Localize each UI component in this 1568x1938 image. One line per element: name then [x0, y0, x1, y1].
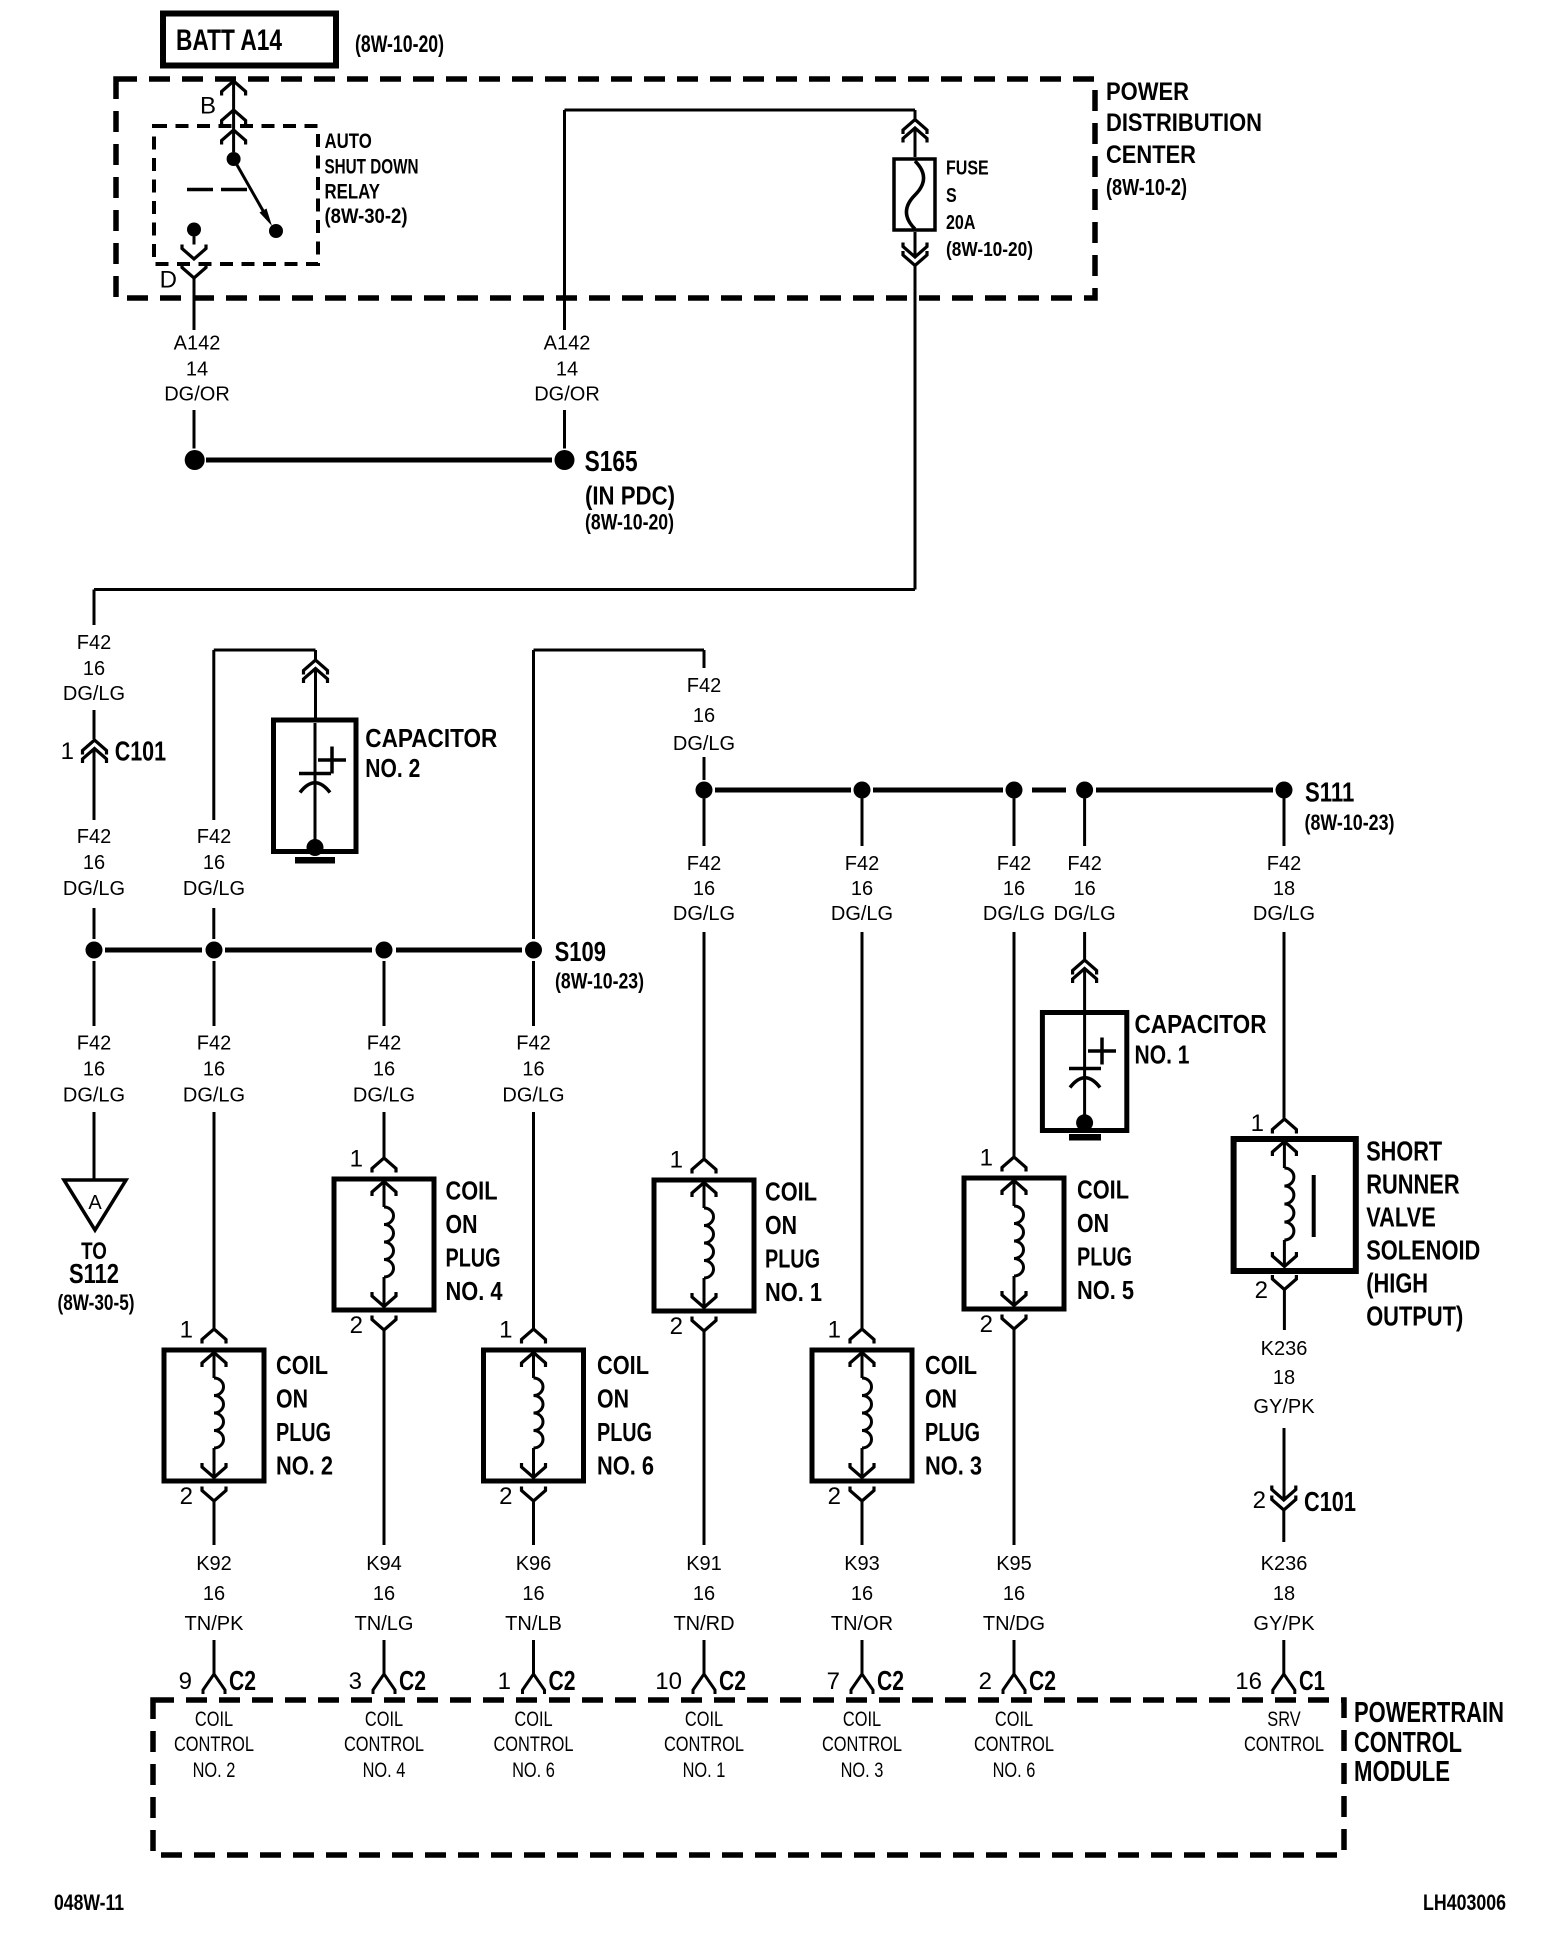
wire to SRV solenoid — [1283, 799, 1286, 1120]
svg-text:C2: C2 — [229, 1665, 256, 1696]
svg-text:16: 16 — [693, 1583, 715, 1605]
label K94 16 TN/LG — [355, 1553, 414, 1635]
svg-text:1: 1 — [61, 738, 74, 765]
wire to coil no 5 — [1013, 799, 1016, 1158]
wire col3 top feed — [383, 942, 386, 950]
svg-text:COIL: COIL — [514, 1708, 552, 1731]
label K92 16 TN/PK — [185, 1553, 245, 1635]
coil on plug no 6 — [484, 1350, 584, 1481]
label COIL CONTROL NO. 6 in PCM — [493, 1708, 573, 1782]
coil on plug no 1 pin 2 — [670, 1313, 716, 1340]
svg-text:1: 1 — [980, 1145, 993, 1172]
svg-text:RELAY: RELAY — [325, 181, 380, 204]
svg-text:K91: K91 — [686, 1553, 722, 1575]
coil on plug no 6 pin 1 — [499, 1317, 545, 1344]
svg-text:F42: F42 — [197, 1033, 231, 1055]
svg-text:DG/LG: DG/LG — [673, 733, 735, 755]
ground bar capacitor no 2 — [295, 857, 335, 864]
svg-text:DG/LG: DG/LG — [353, 1085, 415, 1107]
svg-text:C101: C101 — [1304, 1486, 1356, 1517]
svg-text:(8W-10-23): (8W-10-23) — [555, 969, 644, 994]
svg-text:S109: S109 — [555, 936, 606, 967]
svg-text:POWERTRAIN: POWERTRAIN — [1354, 1697, 1504, 1729]
svg-text:2: 2 — [828, 1483, 841, 1510]
svg-text:B: B — [200, 93, 216, 120]
PCM pin 1 C2 — [498, 1665, 576, 1696]
svg-text:1: 1 — [180, 1317, 193, 1344]
coil on plug no 6 pin 2 — [499, 1483, 545, 1510]
svg-text:CAPACITOR: CAPACITOR — [1135, 1009, 1267, 1039]
svg-text:C2: C2 — [877, 1665, 904, 1696]
label F42 16 DG/LG S111 feed — [673, 675, 735, 755]
svg-text:16: 16 — [522, 1583, 544, 1605]
SRV solenoid pin 1 — [1251, 1110, 1297, 1137]
svg-text:DG/LG: DG/LG — [63, 683, 125, 705]
relay switch common node — [227, 152, 241, 166]
label COIL ON PLUG NO. 6 — [597, 1350, 654, 1481]
svg-text:SRV: SRV — [1267, 1708, 1300, 1731]
fuse output chevrons — [903, 243, 927, 266]
wire S109 bus — [105, 948, 522, 953]
wire coil3 to PCM — [861, 1501, 864, 1674]
svg-text:NO. 4: NO. 4 — [363, 1759, 406, 1782]
label SRV CONTROL in PCM — [1244, 1708, 1324, 1756]
label A142 14 DG/OR left — [164, 333, 230, 406]
svg-text:16: 16 — [1003, 878, 1025, 900]
wire capacitor2 branch — [214, 650, 316, 939]
svg-text:NO. 2: NO. 2 — [365, 753, 420, 783]
svg-text:2: 2 — [180, 1483, 193, 1510]
svg-text:2: 2 — [1253, 1487, 1266, 1514]
label F42 16 DG/LG coil1 — [673, 853, 735, 925]
svg-text:NO. 2: NO. 2 — [276, 1451, 333, 1481]
label K93 16 TN/OR — [831, 1553, 893, 1635]
wire S111 feed — [703, 650, 706, 780]
label COIL CONTROL NO. 6 in PCM — [974, 1708, 1054, 1782]
wire C101 to PCM — [1282, 1510, 1285, 1674]
svg-text:PLUG: PLUG — [925, 1417, 980, 1447]
svg-text:TN/LB: TN/LB — [505, 1613, 562, 1635]
svg-text:(8W-10-20): (8W-10-20) — [355, 31, 444, 58]
wire to coil no 4 — [383, 961, 386, 1158]
svg-text:K96: K96 — [516, 1553, 552, 1575]
svg-text:TN/PK: TN/PK — [185, 1613, 245, 1635]
svg-text:COIL: COIL — [446, 1176, 498, 1206]
label F42 16 DG/LG coil4 — [353, 1033, 415, 1107]
svg-text:DG/LG: DG/LG — [183, 1085, 245, 1107]
svg-text:3: 3 — [349, 1668, 362, 1695]
svg-text:K236: K236 — [1261, 1338, 1308, 1360]
svg-text:ON: ON — [925, 1384, 957, 1414]
svg-text:DG/LG: DG/LG — [1253, 903, 1315, 925]
svg-text:COIL: COIL — [195, 1708, 233, 1731]
svg-text:C2: C2 — [719, 1665, 746, 1696]
label POWERTRAIN CONTROL MODULE — [1354, 1697, 1504, 1788]
power distribution center box — [116, 79, 1095, 298]
svg-text:C2: C2 — [549, 1665, 576, 1696]
svg-text:DISTRIBUTION: DISTRIBUTION — [1106, 109, 1262, 137]
coil on plug no 2 pin 1 — [180, 1317, 226, 1344]
svg-text:PLUG: PLUG — [1077, 1242, 1132, 1272]
wire to coil no 1 — [703, 799, 706, 1160]
label COIL ON PLUG NO. 2 — [276, 1350, 333, 1481]
wire S165 up to fuse feed — [565, 110, 916, 449]
svg-text:NO. 6: NO. 6 — [512, 1759, 555, 1782]
wire to S112 connector A — [93, 961, 96, 1180]
svg-text:CONTROL: CONTROL — [493, 1733, 573, 1756]
connector D chevrons — [160, 245, 206, 294]
svg-text:F42: F42 — [1267, 853, 1301, 875]
PCM pin 9 C2 — [179, 1665, 256, 1696]
svg-text:K94: K94 — [366, 1553, 402, 1575]
svg-text:1: 1 — [1251, 1110, 1264, 1137]
svg-text:16: 16 — [203, 852, 225, 874]
coil on plug no 3 — [812, 1350, 912, 1481]
svg-text:18: 18 — [1273, 1583, 1295, 1605]
PCM pin 3 C2 — [349, 1665, 426, 1696]
svg-text:K93: K93 — [844, 1553, 880, 1575]
wire coil1 to PCM — [703, 1331, 706, 1674]
svg-text:16: 16 — [83, 1059, 105, 1081]
svg-text:COIL: COIL — [765, 1177, 817, 1207]
svg-text:(HIGH: (HIGH — [1366, 1268, 1428, 1299]
svg-text:1: 1 — [498, 1668, 511, 1695]
coil on plug no 2 pin 2 — [180, 1483, 226, 1510]
ground bar capacitor no 1 — [1069, 1134, 1101, 1141]
wire to coil no 6 — [532, 961, 535, 1329]
coil on plug no 3 pin 1 — [828, 1317, 874, 1344]
svg-text:048W-11: 048W-11 — [54, 1890, 124, 1915]
PCM pin 10 C2 — [655, 1665, 746, 1696]
svg-text:16: 16 — [1235, 1668, 1262, 1695]
battery feed box BATT A14 — [163, 14, 336, 66]
footer code 048W-11 — [54, 1890, 124, 1915]
svg-text:DG/LG: DG/LG — [673, 903, 735, 925]
label FUSE S 20A (8W-10-20) — [946, 158, 1033, 262]
wire to C101 — [93, 590, 96, 740]
svg-text:(8W-10-2): (8W-10-2) — [1106, 174, 1187, 200]
capacitor C1 box — [1042, 969, 1126, 1131]
svg-text:C1: C1 — [1299, 1665, 1325, 1696]
label AUTO SHUT DOWN RELAY — [325, 130, 419, 228]
splice S109 dots — [86, 942, 543, 959]
svg-text:F42: F42 — [687, 675, 721, 697]
label COIL CONTROL NO. 4 in PCM — [344, 1708, 424, 1782]
svg-text:14: 14 — [186, 359, 208, 381]
wire coil6 to PCM — [532, 1501, 535, 1674]
wire SRV pin2 to C101 — [1283, 1290, 1286, 1501]
svg-text:COIL: COIL — [843, 1708, 881, 1731]
svg-text:A142: A142 — [174, 333, 221, 355]
label K96 16 TN/LB — [505, 1553, 562, 1635]
svg-text:NO. 1: NO. 1 — [1135, 1039, 1190, 1069]
wire S111 bus — [715, 788, 1273, 793]
svg-text:AUTO: AUTO — [325, 130, 372, 153]
coil on plug no 4 — [334, 1179, 434, 1310]
svg-text:D: D — [160, 267, 177, 294]
svg-text:F42: F42 — [845, 853, 879, 875]
label (8W-10-20) for BATT A14 — [355, 31, 444, 58]
svg-text:S112: S112 — [69, 1258, 119, 1289]
svg-text:NO. 3: NO. 3 — [925, 1451, 982, 1481]
svg-text:COIL: COIL — [597, 1350, 649, 1380]
svg-text:16: 16 — [373, 1059, 395, 1081]
connector C101 pin 1 — [61, 736, 166, 767]
svg-text:GY/PK: GY/PK — [1253, 1613, 1315, 1635]
svg-text:A142: A142 — [544, 333, 591, 355]
label COIL CONTROL NO. 1 in PCM — [664, 1708, 744, 1782]
svg-text:CONTROL: CONTROL — [664, 1733, 744, 1756]
label F42 16 DG/LG cap1 — [1053, 853, 1115, 925]
svg-text:COIL: COIL — [365, 1708, 403, 1731]
splice S165 — [555, 446, 676, 535]
connector B into PDC — [200, 81, 246, 120]
PCM pin 16 C1 — [1235, 1665, 1325, 1696]
svg-text:NO. 5: NO. 5 — [1077, 1275, 1134, 1305]
SRV solenoid pin 2 — [1255, 1275, 1297, 1304]
svg-text:ON: ON — [597, 1384, 629, 1414]
coil on plug no 4 pin 1 — [350, 1146, 396, 1173]
coil on plug no 2 — [164, 1350, 264, 1481]
label COIL CONTROL NO. 2 in PCM — [174, 1708, 254, 1782]
svg-text:PLUG: PLUG — [765, 1244, 820, 1274]
label S109 — [555, 936, 644, 994]
svg-text:1: 1 — [828, 1317, 841, 1344]
svg-text:F42: F42 — [197, 826, 231, 848]
capacitor no 1 ground node — [1076, 1114, 1093, 1131]
svg-text:K92: K92 — [196, 1553, 232, 1575]
svg-text:F42: F42 — [687, 853, 721, 875]
capacitor no 2 ground node — [307, 839, 324, 856]
relay connector chevrons at relay border — [222, 110, 246, 145]
svg-text:C2: C2 — [399, 1665, 426, 1696]
svg-text:S: S — [946, 185, 957, 207]
auto shut down relay box — [154, 126, 318, 264]
label F42 16 DG/LG cap2 branch — [183, 826, 245, 900]
svg-text:K236: K236 — [1261, 1553, 1308, 1575]
svg-text:CONTROL: CONTROL — [822, 1733, 902, 1756]
label COIL ON PLUG NO. 3 — [925, 1350, 982, 1481]
coil on plug no 1 pin 1 — [670, 1147, 716, 1174]
svg-text:S165: S165 — [585, 446, 638, 478]
svg-text:NO. 6: NO. 6 — [597, 1451, 654, 1481]
wire coil4 to PCM — [383, 1330, 386, 1674]
relay switch arm — [234, 159, 272, 226]
svg-text:14: 14 — [556, 359, 578, 381]
svg-text:CAPACITOR: CAPACITOR — [365, 723, 497, 753]
svg-text:DG/OR: DG/OR — [534, 384, 600, 406]
svg-text:SOLENOID: SOLENOID — [1366, 1235, 1480, 1266]
svg-text:7: 7 — [827, 1668, 840, 1695]
svg-text:18: 18 — [1273, 878, 1295, 900]
relay output pin node — [187, 223, 201, 237]
label CAPACITOR NO. 1 — [1135, 1009, 1267, 1069]
svg-text:DG/OR: DG/OR — [164, 384, 230, 406]
svg-text:16: 16 — [693, 705, 715, 727]
svg-text:(8W-10-23): (8W-10-23) — [1305, 810, 1395, 835]
svg-text:COIL: COIL — [925, 1350, 977, 1380]
svg-text:2: 2 — [499, 1483, 512, 1510]
svg-text:(8W-10-20): (8W-10-20) — [585, 510, 674, 535]
fuse S 20A — [894, 159, 935, 230]
svg-text:DG/LG: DG/LG — [831, 903, 893, 925]
label F42 16 DG/LG coil3 — [831, 853, 893, 925]
label F42 16 DG/LG to S112 — [63, 1033, 125, 1107]
svg-text:DG/LG: DG/LG — [63, 878, 125, 900]
svg-text:16: 16 — [851, 1583, 873, 1605]
svg-text:CONTROL: CONTROL — [344, 1733, 424, 1756]
svg-text:POWER: POWER — [1106, 78, 1189, 106]
svg-text:TN/LG: TN/LG — [355, 1613, 414, 1635]
svg-text:(8W-30-5): (8W-30-5) — [58, 1290, 135, 1315]
wire fuse output down and across — [94, 232, 915, 590]
svg-text:ON: ON — [276, 1384, 308, 1414]
footer code LH403006 — [1423, 1890, 1506, 1915]
svg-text:16: 16 — [693, 878, 715, 900]
wire S165 bus — [206, 458, 552, 463]
svg-text:F42: F42 — [1067, 853, 1101, 875]
label COIL ON PLUG NO. 5 — [1077, 1175, 1134, 1305]
svg-text:ON: ON — [446, 1209, 478, 1239]
svg-text:9: 9 — [179, 1668, 192, 1695]
svg-text:CONTROL: CONTROL — [174, 1733, 254, 1756]
wire col4 feed from top — [534, 650, 705, 939]
label A142 14 DG/OR right — [534, 333, 600, 406]
svg-text:F42: F42 — [77, 826, 111, 848]
connector A triangle — [64, 1180, 126, 1230]
label TO S112 (8W-30-5) — [58, 1238, 135, 1315]
splice node left — [185, 450, 205, 470]
label K236 18 GY/PK lower — [1253, 1553, 1315, 1635]
svg-text:GY/PK: GY/PK — [1253, 1396, 1315, 1418]
label F42 16 DG/LG col1 upper — [63, 632, 125, 705]
label K91 16 TN/RD — [673, 1553, 734, 1635]
svg-text:ON: ON — [1077, 1208, 1109, 1238]
svg-text:2: 2 — [1255, 1277, 1268, 1304]
label F42 16 DG/LG coil2 — [183, 1033, 245, 1107]
svg-text:FUSE: FUSE — [946, 158, 989, 180]
svg-text:COIL: COIL — [995, 1708, 1033, 1731]
PCM pin 7 C2 — [827, 1665, 904, 1696]
svg-text:NO. 1: NO. 1 — [683, 1759, 726, 1782]
svg-text:S111: S111 — [1305, 777, 1354, 808]
coil on plug no 3 pin 2 — [828, 1483, 874, 1510]
svg-text:10: 10 — [655, 1668, 682, 1695]
powertrain control module box — [153, 1700, 1344, 1855]
svg-text:DG/LG: DG/LG — [983, 903, 1045, 925]
wire coil2 to PCM — [213, 1501, 216, 1674]
svg-text:2: 2 — [980, 1311, 993, 1338]
svg-text:NO. 2: NO. 2 — [193, 1759, 236, 1782]
svg-text:C101: C101 — [115, 736, 166, 767]
svg-text:16: 16 — [83, 852, 105, 874]
svg-text:NO. 6: NO. 6 — [993, 1759, 1036, 1782]
svg-text:SHUT DOWN: SHUT DOWN — [325, 156, 419, 179]
svg-text:16: 16 — [203, 1059, 225, 1081]
label COIL ON PLUG NO. 1 — [765, 1177, 822, 1307]
relay coil divider — [187, 188, 248, 192]
svg-text:F42: F42 — [367, 1033, 401, 1055]
svg-text:2: 2 — [670, 1313, 683, 1340]
wire coil5 to PCM — [1013, 1329, 1016, 1674]
label COIL CONTROL NO. 3 in PCM — [822, 1708, 902, 1782]
coil on plug no 5 pin 1 — [980, 1145, 1026, 1172]
svg-text:COIL: COIL — [685, 1708, 723, 1731]
svg-text:CONTROL: CONTROL — [1354, 1727, 1462, 1759]
svg-text:F42: F42 — [77, 1033, 111, 1055]
svg-text:16: 16 — [1003, 1583, 1025, 1605]
svg-text:C2: C2 — [1029, 1665, 1056, 1696]
svg-text:TN/RD: TN/RD — [673, 1613, 734, 1635]
svg-text:16: 16 — [203, 1583, 225, 1605]
svg-text:COIL: COIL — [1077, 1175, 1129, 1205]
svg-text:18: 18 — [1273, 1367, 1295, 1389]
capacitor C2 box — [274, 669, 357, 852]
svg-text:2: 2 — [979, 1668, 992, 1695]
svg-text:16: 16 — [851, 878, 873, 900]
svg-text:VALVE: VALVE — [1366, 1202, 1436, 1233]
svg-text:SHORT: SHORT — [1366, 1136, 1442, 1167]
coil on plug no 5 — [964, 1178, 1064, 1309]
label CAPACITOR NO. 2 — [365, 723, 497, 783]
svg-text:16: 16 — [522, 1059, 544, 1081]
svg-text:ON: ON — [765, 1210, 797, 1240]
svg-text:NO. 1: NO. 1 — [765, 1277, 822, 1307]
label F42 16 DG/LG col1 lower — [63, 826, 125, 900]
svg-text:1: 1 — [350, 1146, 363, 1173]
PCM pin 2 C2 — [979, 1665, 1056, 1696]
svg-text:CONTROL: CONTROL — [974, 1733, 1054, 1756]
svg-text:NO. 3: NO. 3 — [841, 1759, 884, 1782]
svg-text:TN/DG: TN/DG — [983, 1613, 1045, 1635]
svg-text:PLUG: PLUG — [446, 1243, 501, 1273]
svg-text:DG/LG: DG/LG — [183, 878, 245, 900]
label F42 18 DG/LG SRV — [1253, 853, 1315, 925]
wire to coil no 3 — [861, 799, 864, 1330]
svg-text:DG/LG: DG/LG — [63, 1085, 125, 1107]
short runner valve solenoid — [1234, 1139, 1356, 1271]
connector chevrons capacitor2 — [304, 660, 328, 683]
svg-text:(8W-30-2): (8W-30-2) — [325, 205, 408, 228]
svg-text:OUTPUT): OUTPUT) — [1366, 1301, 1463, 1332]
coil on plug no 4 pin 2 — [350, 1312, 396, 1339]
svg-text:TN/OR: TN/OR — [831, 1613, 893, 1635]
svg-text:NO. 4: NO. 4 — [446, 1276, 503, 1306]
relay switch contact node — [269, 224, 283, 238]
svg-text:1: 1 — [499, 1317, 512, 1344]
svg-text:(IN PDC): (IN PDC) — [585, 481, 675, 511]
label K95 16 TN/DG — [983, 1553, 1045, 1635]
svg-text:COIL: COIL — [276, 1350, 328, 1380]
svg-text:F42: F42 — [997, 853, 1031, 875]
capacitor no 2 element — [299, 723, 346, 840]
svg-text:(8W-10-20): (8W-10-20) — [946, 239, 1033, 261]
svg-text:F42: F42 — [516, 1033, 550, 1055]
label K236 18 GY/PK upper — [1253, 1338, 1315, 1418]
label S111 — [1305, 777, 1395, 836]
svg-text:LH403006: LH403006 — [1423, 1890, 1506, 1915]
capacitor no 1 element — [1069, 1015, 1116, 1115]
wire C101 to S109 — [93, 749, 96, 940]
wire relay pin D — [193, 237, 196, 245]
wire D to A142 splice — [193, 278, 196, 449]
svg-text:K95: K95 — [996, 1553, 1032, 1575]
label COIL ON PLUG NO. 4 — [446, 1176, 503, 1306]
svg-text:RUNNER: RUNNER — [1366, 1169, 1459, 1200]
svg-text:16: 16 — [83, 658, 105, 680]
svg-text:1: 1 — [670, 1147, 683, 1174]
wire relay pin B — [232, 81, 235, 152]
